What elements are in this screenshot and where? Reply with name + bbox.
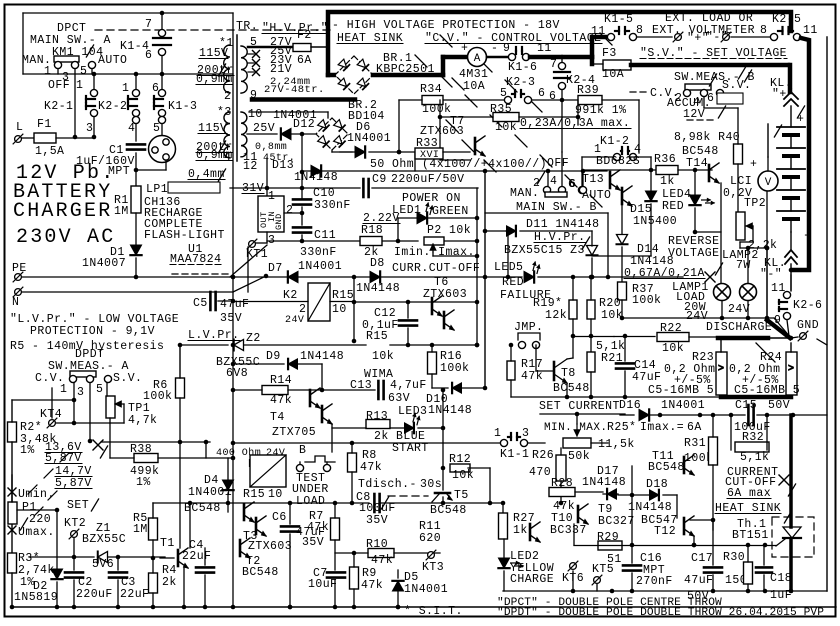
svg-text:RED: RED <box>662 200 684 213</box>
svg-text:10: 10 <box>332 303 347 316</box>
svg-text:10k: 10k <box>601 309 623 322</box>
svg-text:C5: C5 <box>193 297 208 310</box>
svg-text:T8: T8 <box>561 367 576 380</box>
svg-text:S.V.: S.V. <box>113 372 142 385</box>
svg-text:*1: *1 <box>219 37 234 50</box>
svg-text:220uF: 220uF <box>76 588 113 601</box>
svg-text:230V AC: 230V AC <box>16 226 115 249</box>
svg-text:10k: 10k <box>495 121 517 134</box>
svg-text:21V: 21V <box>270 63 292 76</box>
svg-text:P2 10k: P2 10k <box>427 224 471 237</box>
svg-text:1,5A: 1,5A <box>35 145 64 158</box>
svg-text:35V: 35V <box>366 514 388 527</box>
svg-text:CHARGER: CHARGER <box>13 200 112 223</box>
svg-text:XVI: XVI <box>420 150 439 161</box>
svg-text:50k: 50k <box>568 450 590 463</box>
svg-text:11: 11 <box>803 24 818 37</box>
svg-text:35V: 35V <box>302 536 324 549</box>
svg-text:K1-6: K1-6 <box>508 61 537 74</box>
svg-text:3: 3 <box>77 386 84 399</box>
svg-text:27V-48tr.: 27V-48tr. <box>264 84 325 96</box>
svg-text:2: 2 <box>286 204 293 217</box>
svg-text:-: - <box>803 229 810 242</box>
svg-text:1: 1 <box>268 190 275 203</box>
svg-text:D12: D12 <box>293 118 315 131</box>
svg-text:TP2: TP2 <box>744 197 766 210</box>
svg-text:R31: R31 <box>684 437 706 450</box>
svg-text:BC548: BC548 <box>553 382 590 395</box>
svg-text:K2-5: K2-5 <box>772 13 801 26</box>
svg-text:Imax.=: Imax.= <box>640 421 684 434</box>
svg-text:6: 6 <box>145 49 152 62</box>
svg-text:30s: 30s <box>420 478 442 491</box>
svg-text:LED5: LED5 <box>494 261 523 274</box>
svg-text:K2-1: K2-1 <box>44 100 73 113</box>
svg-text:MAIN SW.- B: MAIN SW.- B <box>516 201 597 214</box>
svg-text:11: 11 <box>591 25 606 38</box>
svg-text:BC337: BC337 <box>550 524 587 537</box>
svg-text:D9: D9 <box>266 350 281 363</box>
svg-text:Umin.: Umin. <box>18 488 55 501</box>
svg-text:PROTECTION - 9,1V: PROTECTION - 9,1V <box>30 325 155 338</box>
svg-text:4,7uF: 4,7uF <box>390 379 427 392</box>
svg-text:C5-16MB 5: C5-16MB 5 <box>734 384 800 397</box>
svg-text:1N4148: 1N4148 <box>628 501 672 514</box>
svg-text:1k: 1k <box>660 175 675 188</box>
svg-text:K1-2: K1-2 <box>600 135 629 148</box>
svg-text:6A: 6A <box>297 54 312 67</box>
svg-text:2: 2 <box>533 177 540 190</box>
svg-text:6A: 6A <box>687 421 702 434</box>
svg-text:BZX55C15 Z3: BZX55C15 Z3 <box>504 244 585 257</box>
svg-text:1M: 1M <box>114 205 129 218</box>
svg-text:22uF: 22uF <box>120 588 149 601</box>
svg-text:5,1k: 5,1k <box>740 451 769 464</box>
svg-text:K1-1: K1-1 <box>500 448 529 461</box>
svg-text:1N4148: 1N4148 <box>300 350 344 363</box>
svg-text:0,1uF: 0,1uF <box>362 319 399 332</box>
svg-text:2k: 2k <box>162 576 177 589</box>
svg-text:F3: F3 <box>602 47 617 60</box>
svg-text:100k: 100k <box>440 362 469 375</box>
svg-text:4: 4 <box>550 175 557 188</box>
svg-text:0,8mm: 0,8mm <box>255 142 287 153</box>
svg-text:K2: K2 <box>283 289 298 302</box>
svg-text:1: 1 <box>494 427 501 440</box>
svg-text:1%: 1% <box>136 476 151 489</box>
svg-text:GREEN: GREEN <box>432 205 469 218</box>
svg-text:8: 8 <box>760 24 767 37</box>
svg-text:5V6: 5V6 <box>92 558 114 571</box>
svg-text:5: 5 <box>80 65 87 78</box>
svg-text:K1-5: K1-5 <box>604 13 633 26</box>
svg-text:C5-16MB 5: C5-16MB 5 <box>648 384 714 397</box>
svg-text:K2-6: K2-6 <box>793 299 822 312</box>
svg-text:V: V <box>765 177 772 189</box>
svg-text:S.V.: S.V. <box>722 79 751 92</box>
svg-text:C9: C9 <box>372 173 387 186</box>
svg-text:1N4001: 1N4001 <box>661 399 705 412</box>
svg-text:1: 1 <box>44 65 51 78</box>
svg-text:1N4001: 1N4001 <box>298 260 342 273</box>
svg-text:330nF: 330nF <box>300 246 337 259</box>
svg-text:* S.I.T.: * S.I.T. <box>404 605 463 618</box>
svg-text:10k: 10k <box>662 342 684 355</box>
svg-text:35V: 35V <box>220 312 242 325</box>
svg-text:SET: SET <box>67 499 89 512</box>
svg-text:6: 6 <box>538 87 545 100</box>
svg-text:1: 1 <box>76 79 83 92</box>
svg-text:K2-3: K2-3 <box>506 76 535 89</box>
svg-text:B: B <box>299 444 306 457</box>
svg-text:47k: 47k <box>307 521 329 534</box>
svg-text:100k: 100k <box>632 294 661 307</box>
svg-text:47k: 47k <box>361 579 383 592</box>
svg-text:TR.: TR. <box>236 20 258 33</box>
svg-text:D16: D16 <box>619 399 641 412</box>
svg-text:1: 1 <box>122 82 129 95</box>
svg-text:R25*: R25* <box>607 421 636 434</box>
svg-text:9: 9 <box>503 42 510 55</box>
svg-text:START: START <box>392 442 429 455</box>
svg-text:12: 12 <box>243 160 258 173</box>
svg-text:RED: RED <box>502 276 524 289</box>
svg-text:991k 1%: 991k 1% <box>575 104 626 117</box>
svg-text:ZTX603: ZTX603 <box>423 288 467 301</box>
svg-text:50 Ohm: 50 Ohm <box>370 158 414 171</box>
svg-text:"DPDT" - DOUBLE POLE DOUBLE TH: "DPDT" - DOUBLE POLE DOUBLE THROW 26.04.… <box>497 607 824 619</box>
svg-text:A: A <box>474 53 481 65</box>
svg-text:R36: R36 <box>654 153 676 166</box>
svg-text:3: 3 <box>522 427 529 440</box>
svg-text:*3: *3 <box>217 106 232 119</box>
svg-text:51: 51 <box>607 553 622 566</box>
svg-text:BC327: BC327 <box>598 515 635 528</box>
svg-text:CURR.CUT-OFF: CURR.CUT-OFF <box>392 262 480 275</box>
svg-text:D18: D18 <box>646 478 668 491</box>
svg-text:BZX55C: BZX55C <box>82 533 126 546</box>
svg-text:VOLTAGE: VOLTAGE <box>668 247 719 260</box>
svg-text:PE: PE <box>12 262 27 275</box>
svg-text:+: + <box>750 158 757 171</box>
svg-text:1N5819: 1N5819 <box>14 591 58 604</box>
svg-text:47uF: 47uF <box>684 574 713 587</box>
svg-text:24V: 24V <box>728 303 750 316</box>
svg-text:Umax.: Umax. <box>18 526 55 539</box>
svg-text:OFF: OFF <box>547 157 569 170</box>
svg-text:FLASH-LIGHT: FLASH-LIGHT <box>144 229 225 242</box>
svg-text:+: + <box>797 113 804 126</box>
svg-text:10k: 10k <box>452 469 474 482</box>
svg-text:BC548: BC548 <box>648 461 685 474</box>
svg-text:T14: T14 <box>686 157 708 170</box>
svg-text:6: 6 <box>549 90 556 103</box>
svg-text:10A: 10A <box>602 68 624 81</box>
svg-text:2k: 2k <box>374 430 389 443</box>
svg-text:1N4148: 1N4148 <box>356 282 400 295</box>
svg-text:10uF: 10uF <box>308 578 337 591</box>
svg-text:- HIGH VOLTAGE PROTECTION - 18: - HIGH VOLTAGE PROTECTION - 18V <box>332 19 560 32</box>
svg-text:Tdisch.-: Tdisch.- <box>358 478 417 491</box>
svg-text:24V: 24V <box>686 310 708 323</box>
svg-text:1: 1 <box>60 383 67 396</box>
svg-text:LOAD: LOAD <box>296 495 325 508</box>
svg-text:C18: C18 <box>770 572 792 585</box>
svg-text:MAA7824: MAA7824 <box>170 253 221 266</box>
svg-text:4: 4 <box>224 151 231 164</box>
svg-text:T12: T12 <box>654 525 676 538</box>
svg-text:330nF: 330nF <box>314 199 351 212</box>
svg-text:1N4148: 1N4148 <box>582 476 626 489</box>
svg-text:Z2: Z2 <box>246 332 261 345</box>
svg-text:KT2: KT2 <box>64 517 86 530</box>
svg-text:R34: R34 <box>420 83 442 96</box>
svg-text:BC548: BC548 <box>430 504 467 517</box>
svg-text:6V8: 6V8 <box>226 367 248 380</box>
svg-text:SET CURRENT: SET CURRENT <box>539 400 620 413</box>
svg-text:T13: T13 <box>582 173 604 186</box>
svg-text:620: 620 <box>419 532 441 545</box>
svg-text:T1: T1 <box>160 537 175 550</box>
svg-text:BC548: BC548 <box>242 566 279 579</box>
svg-text:JMP.: JMP. <box>514 321 543 334</box>
svg-text:>: > <box>788 364 794 375</box>
svg-text:D7: D7 <box>268 262 283 275</box>
svg-text:12k: 12k <box>545 309 567 322</box>
svg-text:7: 7 <box>550 58 557 71</box>
svg-text:N: N <box>12 296 19 309</box>
svg-text:10k: 10k <box>372 350 394 363</box>
svg-text:6: 6 <box>568 178 575 191</box>
svg-text:GND: GND <box>797 319 819 332</box>
svg-text:"-": "-" <box>760 268 782 281</box>
svg-text:D11 1N4148: D11 1N4148 <box>526 218 600 231</box>
svg-text:100k: 100k <box>422 103 451 116</box>
svg-text:KT1: KT1 <box>246 248 268 261</box>
svg-text:C6: C6 <box>272 511 287 524</box>
svg-text:12V: 12V <box>683 108 705 121</box>
svg-text:50V: 50V <box>768 399 790 412</box>
svg-text:47k: 47k <box>371 554 393 567</box>
svg-text:11: 11 <box>537 42 552 55</box>
svg-text:63V: 63V <box>388 392 410 405</box>
svg-text:R15: R15 <box>243 488 265 501</box>
svg-text:BT151: BT151 <box>732 529 769 542</box>
svg-text:5: 5 <box>96 383 103 396</box>
svg-text:47k: 47k <box>270 394 292 407</box>
svg-text:11,5k: 11,5k <box>598 438 635 451</box>
svg-text:>: > <box>718 364 724 375</box>
svg-text:10: 10 <box>268 488 283 501</box>
svg-text:270nF: 270nF <box>636 575 673 588</box>
svg-text:2: 2 <box>224 90 231 103</box>
svg-text:F1: F1 <box>37 118 52 131</box>
svg-text:K1-3: K1-3 <box>168 100 197 113</box>
svg-text:8,98k R40: 8,98k R40 <box>674 131 740 144</box>
svg-text:D8: D8 <box>370 257 385 270</box>
svg-text:1N5400: 1N5400 <box>633 215 677 228</box>
svg-text:47uF: 47uF <box>632 371 661 384</box>
svg-text:25V: 25V <box>253 122 275 135</box>
svg-text:C13: C13 <box>350 379 372 392</box>
svg-text:ZTX705: ZTX705 <box>272 426 316 439</box>
svg-text:L: L <box>16 121 23 134</box>
svg-text:8: 8 <box>636 24 643 37</box>
svg-text:5: 5 <box>153 122 160 135</box>
svg-text:1k: 1k <box>513 524 528 537</box>
svg-text:4: 4 <box>128 122 135 135</box>
svg-text:1%: 1% <box>20 444 35 457</box>
svg-text:CHARGE: CHARGE <box>510 573 554 586</box>
svg-text:4,7k: 4,7k <box>128 414 157 427</box>
svg-text:+: + <box>461 42 468 55</box>
svg-text:T4: T4 <box>270 411 285 424</box>
svg-text:47k: 47k <box>521 370 543 383</box>
svg-text:OFF: OFF <box>48 79 70 92</box>
svg-text:470: 470 <box>529 466 551 479</box>
svg-text:1N4007: 1N4007 <box>82 257 126 270</box>
svg-text:10A: 10A <box>463 80 485 93</box>
svg-text:T5: T5 <box>454 489 469 502</box>
svg-text:R15: R15 <box>332 289 354 302</box>
svg-text:2200uF/50V: 2200uF/50V <box>391 173 465 186</box>
svg-text:220: 220 <box>29 513 51 526</box>
svg-text:24V: 24V <box>285 315 304 326</box>
svg-text:22uF: 22uF <box>182 550 211 563</box>
svg-text:3: 3 <box>86 122 93 135</box>
svg-text:C17: C17 <box>691 552 713 565</box>
svg-text:LP1: LP1 <box>146 183 168 196</box>
svg-text:F2: F2 <box>297 29 312 42</box>
svg-text:1M: 1M <box>133 523 148 536</box>
svg-text:R18: R18 <box>361 224 383 237</box>
svg-text:7: 7 <box>145 18 152 31</box>
svg-text:-: - <box>491 42 498 55</box>
svg-text:C11: C11 <box>314 229 336 242</box>
svg-text:10: 10 <box>248 108 263 121</box>
svg-text:1N4001: 1N4001 <box>404 583 448 596</box>
svg-text:D13: D13 <box>272 159 294 172</box>
svg-text:K2-2: K2-2 <box>98 100 127 113</box>
svg-text:R26: R26 <box>532 449 554 462</box>
svg-text:AUTO: AUTO <box>98 54 127 67</box>
svg-text:R30: R30 <box>723 551 745 564</box>
svg-text:KT3: KT3 <box>422 561 444 574</box>
svg-text:1N4001: 1N4001 <box>347 132 391 145</box>
svg-text:KT4: KT4 <box>40 408 62 421</box>
svg-text:47k: 47k <box>360 461 382 474</box>
svg-text:1N4148: 1N4148 <box>428 404 472 417</box>
svg-text:GND: GND <box>274 213 284 230</box>
svg-text:1N4001: 1N4001 <box>188 486 232 499</box>
svg-text:ZTX603: ZTX603 <box>248 540 292 553</box>
svg-text:DISCHARGE: DISCHARGE <box>706 321 772 334</box>
